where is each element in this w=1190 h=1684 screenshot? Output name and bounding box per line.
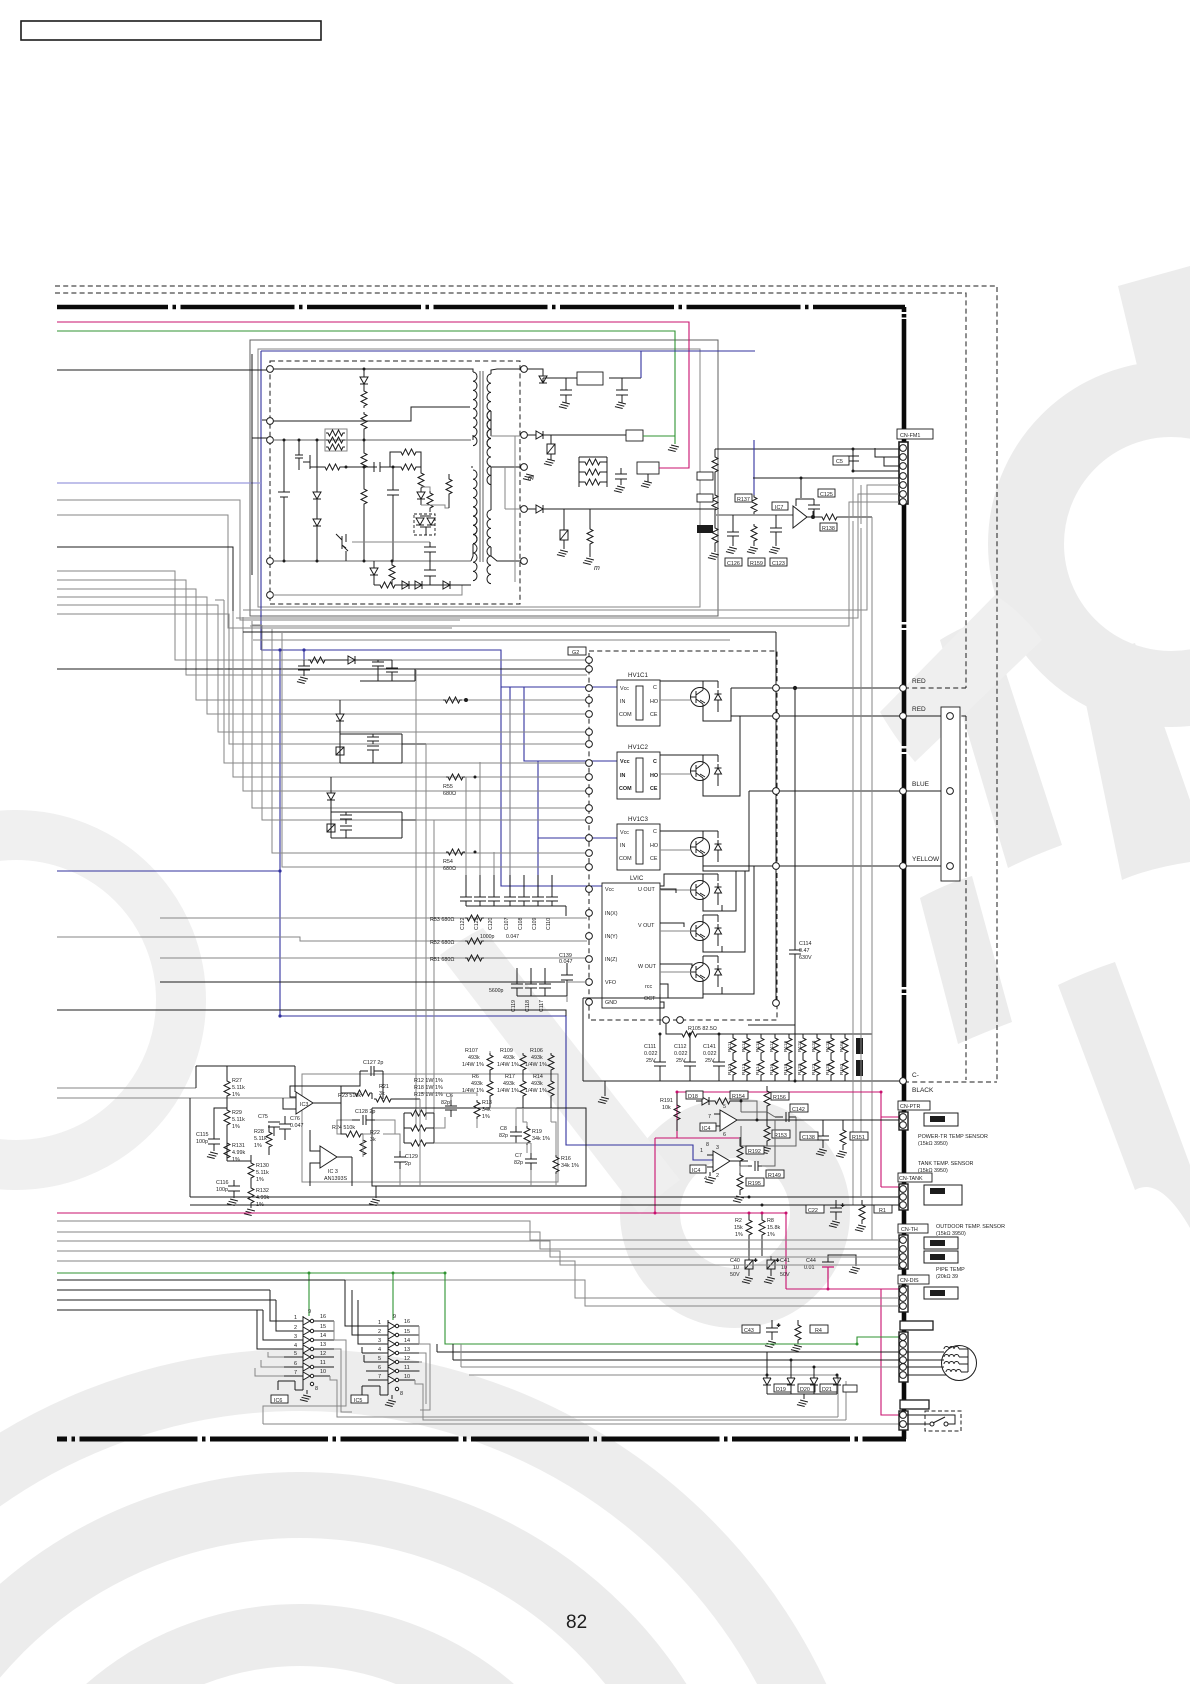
label R196 box — [697, 525, 713, 533]
svg-text:D20: D20 — [800, 1387, 810, 1393]
svg-text:34k 1%: 34k 1% — [561, 1163, 579, 1169]
svg-text:15k: 15k — [734, 1225, 743, 1231]
op-amp U-HV1C3 box — [617, 816, 660, 870]
wire left gray 937 — [57, 937, 587, 941]
sensor TH box2 — [924, 1251, 958, 1263]
diode D66 — [370, 561, 378, 585]
sensor TH box1 — [924, 1237, 958, 1249]
resistor R75 — [583, 509, 594, 565]
capacitor C126 — [726, 515, 739, 554]
IC LVIC box — [602, 875, 660, 1008]
svg-text:R149: R149 — [768, 1173, 781, 1179]
svg-text:CE: CE — [650, 786, 658, 792]
svg-text:AN1393S: AN1393S — [324, 1176, 347, 1182]
wire ic6 inputs — [57, 1290, 284, 1349]
svg-text:1000p: 1000p — [480, 934, 495, 940]
wire row INX — [300, 917, 587, 919]
svg-text:C40: C40 — [730, 1258, 740, 1264]
capacitor C123 — [769, 515, 782, 554]
svg-text:C44: C44 — [806, 1258, 816, 1264]
svg-text:C8: C8 — [500, 1126, 507, 1132]
svg-text:R22: R22 — [370, 1130, 380, 1136]
svg-text:R55: R55 — [443, 784, 453, 790]
wire collector rail top — [243, 631, 776, 633]
svg-text:5: 5 — [723, 1104, 726, 1110]
svg-text:R12 1W 1%: R12 1W 1% — [414, 1078, 443, 1084]
resistor R195 — [733, 1173, 744, 1203]
svg-text:R132: R132 — [256, 1188, 269, 1194]
svg-text:493k: 493k — [468, 1055, 480, 1061]
svg-text:R159: R159 — [750, 561, 763, 567]
svg-text:10: 10 — [404, 1374, 410, 1380]
svg-text:82: 82 — [566, 1612, 587, 1633]
svg-text:R110: R110 — [727, 1064, 733, 1075]
wire secondary taps — [491, 436, 521, 582]
svg-text:R53 680Ω: R53 680Ω — [430, 917, 454, 923]
wire collector bus — [703, 632, 776, 956]
wire loop around power supply outer — [250, 340, 718, 616]
svg-text:R17: R17 — [505, 1074, 515, 1080]
capacitor C22 — [829, 1200, 844, 1228]
wire magenta bottom drop — [881, 1289, 899, 1415]
resistor R137 — [753, 440, 755, 495]
label R195 box — [746, 1178, 764, 1186]
svg-text:R156: R156 — [773, 1095, 786, 1101]
thick top border — [57, 305, 905, 310]
svg-text:4.99k: 4.99k — [232, 1150, 245, 1156]
resistor R27 5.11k — [224, 1066, 230, 1108]
capacitor C119 C118 C117 — [511, 968, 567, 996]
wire gate row — [310, 466, 323, 468]
resistor labels bank — [727, 1040, 845, 1075]
wire r21 net — [341, 1071, 420, 1099]
resistor R169 black — [856, 1038, 863, 1054]
svg-text:493k: 493k — [503, 1081, 515, 1087]
node RED2 — [900, 713, 907, 720]
diode D20 — [787, 1360, 795, 1394]
wire U phase — [660, 688, 776, 886]
svg-text:R191: R191 — [660, 1098, 673, 1104]
svg-text:R192: R192 — [748, 1149, 761, 1155]
transformer T1 primary top — [466, 369, 477, 446]
resistor R1 — [855, 1200, 866, 1232]
resistor trio R12 R18 R15 — [404, 1110, 434, 1146]
resistor col R6 R17 R14 — [487, 1072, 554, 1108]
label C5 box — [833, 456, 849, 465]
svg-text:R130: R130 — [256, 1163, 269, 1169]
svg-text:COM: COM — [619, 786, 632, 792]
capacitor C7 82p — [525, 1153, 537, 1170]
svg-text:82p: 82p — [499, 1133, 508, 1139]
wire rows to hvic3 — [252, 625, 587, 867]
resistor R2 15k — [746, 1213, 752, 1256]
svg-text:R137: R137 — [737, 497, 750, 503]
capacitor C44 0.01 — [822, 1255, 834, 1289]
capacitor C40 10 50V — [742, 1256, 757, 1284]
connector compressor box — [941, 707, 960, 881]
wire emitter bottom bus — [583, 905, 722, 1025]
svg-text:R116: R116 — [769, 1064, 775, 1075]
capacitor C141 — [713, 1051, 725, 1081]
svg-text:+: + — [841, 1203, 844, 1209]
svg-text:25V: 25V — [676, 1058, 686, 1064]
svg-text:R54: R54 — [443, 859, 453, 865]
thermistor TH2 — [930, 1254, 945, 1260]
wire row 982 — [160, 981, 565, 983]
svg-text:0.047: 0.047 — [290, 1123, 304, 1129]
sensor TANK box — [924, 1185, 962, 1205]
label R193 box — [746, 1146, 764, 1154]
zener D63 — [417, 490, 425, 505]
svg-text:RED: RED — [912, 706, 926, 713]
svg-text:493k: 493k — [471, 1081, 483, 1087]
IC5 transistor array — [362, 1320, 419, 1399]
node pin T1-8 — [521, 464, 528, 471]
diode D72 — [536, 505, 716, 513]
svg-text:R52 680Ω: R52 680Ω — [430, 940, 454, 946]
capacitor C144 — [748, 1161, 762, 1171]
diode D67 — [402, 581, 409, 589]
connector CN-PTR body — [899, 1112, 908, 1130]
label C123 box — [770, 558, 787, 566]
capacitor C66 — [559, 378, 572, 409]
wire left gray 1088 — [57, 1087, 196, 1089]
capacitor C115 100p — [207, 1130, 220, 1159]
power supply block T1 dashed box — [270, 361, 520, 604]
capacitor C112 — [684, 1051, 696, 1081]
node RED1 — [900, 685, 907, 692]
node pin T1-1 — [267, 366, 274, 373]
capacitor C129 2p — [394, 1151, 406, 1169]
capacitor C5 — [847, 449, 859, 471]
thermistor PTR — [930, 1116, 945, 1122]
node pin T1-5 — [267, 592, 274, 599]
op-amp IC4a — [714, 1110, 757, 1131]
resistor R136 — [708, 515, 719, 560]
svg-text:R166: R166 — [839, 1040, 845, 1052]
label C126 box — [725, 558, 742, 566]
connector CN-DIS body — [899, 1286, 908, 1312]
svg-text:R138: R138 — [822, 526, 835, 532]
svg-text:rcc: rcc — [645, 984, 652, 990]
thick right border — [902, 307, 907, 1439]
wire pin5 — [273, 585, 462, 595]
transistor Q3 IGBT — [660, 831, 722, 866]
svg-text:LVIC: LVIC — [630, 875, 644, 882]
resistor R68 — [389, 561, 395, 585]
node mid dashed pins — [663, 1017, 684, 1024]
wire bundle staircase to gate drives — [57, 571, 587, 744]
svg-text:82p: 82p — [441, 1100, 450, 1106]
svg-text:5: 5 — [378, 1356, 381, 1362]
transformer T1 secondary bottom — [487, 467, 521, 584]
op-amp U-HV1C2 box — [617, 744, 660, 799]
wire lower emitter join — [722, 866, 754, 994]
svg-text:34k 1%: 34k 1% — [532, 1136, 550, 1142]
svg-text:R6: R6 — [472, 1074, 479, 1080]
svg-text:GND: GND — [605, 1000, 617, 1006]
transformer T1 primary bottom — [471, 467, 477, 581]
node comp2 — [947, 788, 954, 795]
svg-text:5.11k: 5.11k — [256, 1170, 269, 1176]
svg-text:IC4: IC4 — [702, 1126, 710, 1132]
svg-text:C6: C6 — [446, 1093, 453, 1099]
op-amp IC7 — [793, 506, 820, 528]
resistor R134 — [712, 449, 718, 493]
connector CN2 bar — [900, 1400, 929, 1409]
svg-text:IN(Y): IN(Y) — [605, 934, 618, 940]
svg-text:HV1C3: HV1C3 — [628, 816, 649, 823]
svg-text:W OUT: W OUT — [638, 964, 657, 970]
wire light blue — [57, 482, 261, 484]
svg-text:C43: C43 — [744, 1328, 754, 1334]
wire reg gnd — [641, 474, 652, 488]
wire loop around power supply inner — [258, 349, 700, 607]
node comp3 — [947, 863, 954, 870]
capacitor C63 — [387, 467, 399, 561]
capacitor C127 2p — [360, 1066, 383, 1076]
resistor R153 — [760, 1112, 771, 1154]
svg-text:RED: RED — [912, 678, 926, 685]
svg-text:D19: D19 — [776, 1387, 786, 1393]
wire ic5 outputs routing — [415, 1326, 437, 1420]
resistor R72 — [361, 451, 367, 487]
connector CN-DIS label — [898, 1275, 929, 1284]
capacitor C70 — [557, 509, 568, 557]
label D18 box — [686, 1091, 703, 1099]
svg-text:IC3: IC3 — [300, 1102, 308, 1108]
diode D19 — [763, 1352, 771, 1394]
label R4 box — [810, 1325, 828, 1333]
wire C114 taps — [748, 632, 795, 1081]
resistor R73 — [361, 487, 367, 561]
svg-text:C22: C22 — [808, 1208, 818, 1214]
resistor R22 3k — [360, 1138, 366, 1157]
svg-text:15: 15 — [404, 1329, 410, 1335]
resistor R132 4.99k — [244, 1186, 255, 1216]
svg-text:Vcc: Vcc — [620, 686, 629, 692]
svg-text:R28: R28 — [254, 1129, 264, 1135]
node cnth pins — [900, 1237, 907, 1269]
node BLACK — [900, 1078, 907, 1085]
svg-text:D21: D21 — [822, 1387, 832, 1393]
svg-text:10k: 10k — [662, 1105, 671, 1111]
svg-text:R196: R196 — [698, 528, 711, 534]
opto IC61 — [626, 430, 643, 441]
svg-text:4.99k: 4.99k — [256, 1195, 269, 1201]
outer dashed border line 1 — [55, 286, 997, 1082]
wire shunt bus — [583, 994, 660, 1081]
svg-text:C: C — [653, 829, 657, 835]
resistor R71 — [361, 389, 367, 451]
svg-text:C128 2p: C128 2p — [355, 1109, 375, 1115]
svg-text:C120: C120 — [488, 917, 494, 930]
svg-text:m: m — [594, 565, 600, 572]
shunt resistor bank bottom row — [729, 1055, 860, 1081]
svg-text:R27: R27 — [232, 1078, 242, 1084]
svg-text:IC5: IC5 — [354, 1398, 362, 1404]
svg-text:IN: IN — [620, 843, 625, 849]
svg-text:R51 680Ω: R51 680Ω — [430, 957, 454, 963]
diode D69 — [443, 581, 450, 589]
svg-text:82p: 82p — [514, 1160, 523, 1166]
wire vfo gnd row — [567, 982, 587, 1002]
connector CN-TH label — [898, 1224, 928, 1233]
svg-text:25V: 25V — [646, 1058, 656, 1064]
transistor Q6 IGBT — [691, 956, 722, 990]
label D19 box — [774, 1384, 791, 1392]
svg-text:Vcc: Vcc — [605, 887, 614, 893]
svg-text:C7: C7 — [515, 1153, 522, 1159]
svg-text:16: 16 — [404, 1319, 410, 1325]
svg-text:C142: C142 — [792, 1107, 805, 1113]
lvic pin nodes — [586, 886, 593, 1006]
svg-text:R107: R107 — [465, 1048, 478, 1054]
wire lower-left bundle — [57, 1221, 899, 1306]
wire opamp fb — [753, 478, 814, 517]
svg-text:C112: C112 — [674, 1044, 687, 1050]
diode D70 — [539, 375, 547, 383]
svg-text:m: m — [528, 475, 534, 482]
pin numbers ic5 — [378, 1314, 410, 1397]
resistor R135 — [712, 493, 718, 515]
capacitor C111 — [654, 1051, 666, 1081]
svg-text:C75: C75 — [258, 1114, 268, 1120]
label C142 box — [790, 1104, 808, 1112]
dashed net BLACK tap — [904, 1081, 997, 1083]
node YELLOW — [900, 863, 907, 870]
svg-text:1%: 1% — [254, 1143, 262, 1149]
resistor col R107 R109 R106 — [487, 1053, 554, 1072]
connector CN-FAN body — [899, 1332, 908, 1382]
wire snub link — [421, 487, 449, 508]
label C22 box — [806, 1205, 824, 1213]
svg-text:2: 2 — [716, 1173, 719, 1179]
capacitor C114 — [789, 686, 801, 1025]
label R138 box — [820, 523, 837, 531]
hvic pin nodes column — [586, 657, 593, 871]
gate drive cell 1 — [297, 656, 415, 684]
svg-text:C: C — [653, 685, 657, 691]
op-amp IC4b — [707, 1151, 748, 1172]
svg-text:HV1C2: HV1C2 — [628, 744, 649, 751]
svg-text:680Ω: 680Ω — [443, 791, 456, 797]
resistor R193 — [737, 1137, 743, 1166]
ground ic4b — [705, 1172, 716, 1184]
svg-text:R119: R119 — [783, 1041, 789, 1052]
gate drive cell 3 — [327, 777, 416, 838]
transformer T1 secondary top — [487, 369, 521, 485]
svg-text:+: + — [754, 1258, 757, 1264]
connector CN-FAN bar — [900, 1321, 933, 1330]
svg-text:100p: 100p — [216, 1187, 228, 1193]
resistor R152 — [764, 1086, 770, 1112]
svg-text:C125: C125 — [820, 492, 833, 498]
svg-text:R125: R125 — [825, 1040, 831, 1052]
resistor pack R60 box — [325, 429, 347, 451]
snubber R63 — [398, 464, 421, 470]
label C43 box — [742, 1325, 760, 1333]
svg-text:IC6: IC6 — [274, 1398, 282, 1404]
wire magenta left drop — [655, 1092, 739, 1213]
svg-text:R118: R118 — [783, 1064, 789, 1075]
regulator box IC62 — [637, 462, 659, 474]
svg-text:C121: C121 — [474, 917, 480, 930]
svg-text:5.11k: 5.11k — [232, 1117, 245, 1123]
svg-text:0.047: 0.047 — [506, 934, 519, 940]
svg-text:4: 4 — [294, 1343, 297, 1349]
svg-text:R131: R131 — [232, 1143, 245, 1149]
ground C69 — [614, 486, 625, 493]
svg-text:3k: 3k — [370, 1137, 376, 1143]
resistor R65 — [427, 490, 433, 512]
svg-text:9: 9 — [308, 1309, 311, 1315]
svg-text:13: 13 — [404, 1347, 410, 1353]
svg-text:1%: 1% — [232, 1092, 240, 1098]
wire rail 640 — [253, 639, 730, 641]
svg-text:7: 7 — [708, 1114, 711, 1120]
node comp1 — [947, 713, 954, 720]
svg-text:COM: COM — [619, 856, 632, 862]
wire navy hvic bus — [261, 650, 617, 897]
svg-text:15.8k: 15.8k — [767, 1225, 780, 1231]
svg-text:C: C — [653, 759, 657, 765]
svg-text:3k: 3k — [379, 1091, 385, 1097]
svg-text:R2: R2 — [735, 1218, 742, 1224]
svg-text:493k: 493k — [503, 1055, 515, 1061]
resistor R130 5.11k — [248, 1155, 254, 1186]
svg-text:0.01: 0.01 — [804, 1265, 815, 1271]
wire cap bank risers — [466, 700, 510, 875]
svg-text:0.022: 0.022 — [644, 1051, 658, 1057]
svg-text:1/4W 1%: 1/4W 1% — [497, 1062, 519, 1068]
svg-text:HO: HO — [650, 843, 658, 849]
svg-text:R115: R115 — [755, 1041, 761, 1052]
node pin T1-4 — [267, 558, 274, 565]
wire cnfm1 pin1 — [715, 448, 899, 450]
capacitor C128 2p — [352, 1115, 375, 1125]
svg-text:CN-TH: CN-TH — [901, 1227, 918, 1233]
diode D21 — [810, 1367, 818, 1394]
svg-text:5: 5 — [294, 1351, 297, 1357]
wire row INZ — [300, 957, 587, 959]
gate drive cell 2 — [336, 700, 426, 763]
svg-text:IN: IN — [620, 699, 625, 705]
connector CN-TH body — [899, 1235, 908, 1269]
svg-text:R122: R122 — [811, 1063, 817, 1075]
svg-text:R21: R21 — [379, 1084, 389, 1090]
node BLUE — [900, 788, 907, 795]
svg-text:C111: C111 — [644, 1044, 656, 1050]
svg-text:R121: R121 — [797, 1040, 803, 1052]
wire left in black 667 — [57, 668, 587, 670]
svg-text:2: 2 — [294, 1325, 297, 1331]
svg-text:R16: R16 — [561, 1156, 571, 1162]
svg-text:IN(X): IN(X) — [605, 911, 618, 917]
svg-text:HV1C1: HV1C1 — [628, 672, 649, 679]
diode D18 — [696, 1097, 713, 1105]
node pin T1-7 — [521, 432, 528, 439]
ground T1 — [523, 474, 534, 481]
svg-text:C110: C110 — [546, 918, 552, 930]
wire ic6 outputs routing — [263, 1321, 420, 1424]
label R135 box — [697, 494, 713, 502]
svg-text:R114: R114 — [755, 1064, 761, 1075]
resistor R105 82.5 — [666, 1024, 729, 1037]
svg-text:R109: R109 — [500, 1048, 513, 1054]
resistor net R74 — [579, 457, 607, 487]
svg-text:C-: C- — [912, 1072, 919, 1079]
